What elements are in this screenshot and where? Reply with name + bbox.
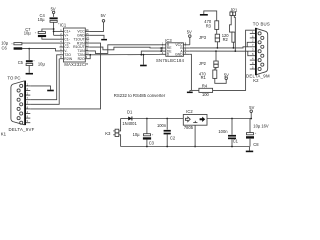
K1 pin numbers bbox=[27, 82, 29, 123]
capacitor C8 bbox=[246, 119, 269, 148]
jumper JP3 bbox=[199, 29, 220, 48]
svg-text:IC2: IC2 bbox=[186, 109, 193, 114]
wire to pin V+ bbox=[54, 34, 60, 36]
svg-text:100n: 100n bbox=[218, 129, 228, 134]
svg-text:10µ: 10µ bbox=[133, 132, 141, 137]
svg-text:TO PC: TO PC bbox=[7, 75, 20, 80]
svg-text:K2: K2 bbox=[253, 78, 259, 83]
svg-text:10µ: 10µ bbox=[38, 61, 46, 66]
svg-text:D1: D1 bbox=[127, 110, 133, 115]
capacitor C2 bbox=[157, 119, 176, 147]
wire IC2 output line bbox=[207, 118, 251, 120]
IC3 pin numbers bbox=[162, 41, 187, 55]
svg-text:5V: 5V bbox=[101, 13, 106, 18]
jumper JP2 bbox=[199, 50, 218, 67]
ground G1 bbox=[26, 73, 33, 75]
K2 pin stubs bbox=[250, 33, 255, 69]
svg-text:5V: 5V bbox=[224, 72, 229, 77]
wire to pin C1+ bbox=[54, 30, 60, 32]
svg-text:IC1: IC1 bbox=[60, 23, 67, 28]
wire A second pin jog bbox=[248, 51, 250, 56]
wire net R1OUT to IC3 RE bbox=[89, 47, 159, 50]
svg-text:10µ: 10µ bbox=[38, 17, 46, 22]
capacitor C7 bbox=[24, 27, 46, 37]
svg-text:R4: R4 bbox=[202, 83, 208, 88]
wire riser to IC3 DE bbox=[141, 51, 159, 55]
wire C7 top to C4 net bbox=[42, 29, 54, 32]
capacitor C4 bbox=[38, 13, 60, 25]
5V supply S3 (IC3 VCC) bbox=[187, 29, 192, 44]
svg-text:C5: C5 bbox=[18, 60, 24, 65]
wire K1 to IC1 T2O bbox=[30, 55, 59, 100]
IC1 MAX232CP bbox=[60, 23, 89, 67]
svg-text:TO BUS: TO BUS bbox=[253, 22, 270, 27]
IC1 pin stubs left bbox=[60, 31, 64, 58]
5V supply S2 (IC1 VCC) bbox=[89, 13, 106, 31]
svg-text:DELTA_9VF: DELTA_9VF bbox=[9, 127, 35, 132]
wire C6 bottom to pin V- with jog bbox=[22, 49, 60, 51]
svg-text:C8: C8 bbox=[253, 142, 259, 147]
wire tie R2O to T2IN bbox=[89, 55, 90, 59]
svg-text:RS232 to RS485 converter: RS232 to RS485 converter bbox=[114, 93, 166, 98]
wire net R1IN to K1 bbox=[30, 43, 100, 109]
wire K3 top to input line bbox=[119, 119, 121, 131]
capacitor C5 bbox=[18, 59, 46, 66]
wire K3 bottom to rail bbox=[119, 135, 121, 147]
K1 DB9 connector DELTA_9VF bbox=[1, 75, 35, 136]
svg-text:10µ 16V: 10µ 16V bbox=[253, 124, 269, 129]
svg-text:MAX232CP: MAX232CP bbox=[64, 62, 88, 67]
svg-text:10µ: 10µ bbox=[24, 30, 32, 35]
capacitor C3 bbox=[133, 119, 155, 147]
wire D1 to IC2 input bbox=[132, 118, 183, 120]
ground G7 (rail end) bbox=[246, 147, 253, 153]
ground G3 (IC1 GND) bbox=[89, 35, 107, 40]
ground G5 and resistor R3 470 bbox=[200, 11, 219, 30]
svg-text:K1: K1 bbox=[1, 131, 7, 136]
svg-text:JP2: JP2 bbox=[199, 61, 207, 66]
wire B line bbox=[190, 47, 250, 48]
IC1 pin labels bbox=[64, 30, 72, 61]
IC1 pin numbers bbox=[60, 28, 89, 59]
5V supply S4 (pull-up) bbox=[215, 72, 229, 83]
svg-text:1N4001: 1N4001 bbox=[122, 121, 137, 126]
svg-text:100: 100 bbox=[202, 92, 210, 97]
5V supply S1 (above C4) bbox=[51, 7, 56, 17]
wire IC3 GND down bbox=[190, 54, 192, 90]
svg-text:100n: 100n bbox=[157, 123, 167, 128]
connector K3 bbox=[105, 129, 119, 136]
svg-text:R2O: R2O bbox=[78, 57, 85, 61]
5V supply S5 (output) bbox=[249, 105, 254, 118]
svg-text:C6: C6 bbox=[2, 46, 8, 51]
svg-text:5V: 5V bbox=[187, 29, 192, 34]
wire C4 bottom to IC1 V+ column bbox=[53, 22, 55, 35]
ground G4 (on D net) bbox=[140, 54, 147, 66]
IC2 7805 regulator bbox=[183, 109, 207, 130]
svg-text:SN75LBC184: SN75LBC184 bbox=[156, 58, 185, 63]
K2 pin numbers bbox=[252, 30, 254, 70]
wire JP1 left to R2 bbox=[230, 16, 234, 33]
wire C6 top to pin C2+ bbox=[22, 42, 60, 44]
svg-text:K3: K3 bbox=[105, 131, 111, 136]
resistor R2 120 bbox=[222, 32, 235, 49]
wire C5 top riser bbox=[28, 49, 30, 61]
svg-text:R3: R3 bbox=[206, 24, 212, 29]
K1 pin stubs bbox=[26, 86, 30, 123]
wire tie RE-DE bbox=[160, 47, 162, 52]
K2 DB9 connector DELTA_9M bbox=[246, 22, 270, 83]
wire ground rail bbox=[121, 146, 250, 148]
svg-text:C3: C3 bbox=[149, 140, 155, 145]
wire R4 to K2 pin 1 bbox=[213, 30, 255, 90]
svg-text:C1: C1 bbox=[233, 139, 239, 144]
svg-text:R2IN: R2IN bbox=[64, 57, 72, 61]
IC3 pin labels bbox=[167, 43, 172, 57]
wire B second pin jog bbox=[247, 42, 250, 47]
diode D1 1N4001 bbox=[121, 110, 138, 127]
IC1 pin stubs right bbox=[85, 31, 89, 58]
jumper JP1 bbox=[230, 7, 238, 15]
IC3 pin stubs bbox=[160, 45, 190, 55]
wire net T1IN to IC3 R bbox=[89, 45, 159, 54]
resistor R1 470 pull-up bbox=[199, 67, 217, 80]
wire C7 bottom to pin C1- bbox=[42, 37, 60, 39]
svg-text:5V: 5V bbox=[249, 105, 254, 110]
capacitor C6 bbox=[1, 40, 22, 50]
capacitor C1 bbox=[218, 119, 238, 147]
ground G2 (K1) bbox=[30, 86, 54, 91]
wire IC2 GND down bbox=[194, 125, 196, 146]
K2 pin circles bbox=[258, 32, 264, 71]
svg-text:JP3: JP3 bbox=[199, 35, 207, 40]
svg-text:JP1: JP1 bbox=[230, 7, 238, 12]
wire net T2IN to IC3 D bbox=[89, 54, 159, 56]
svg-text:7805: 7805 bbox=[184, 125, 194, 130]
svg-text:R2: R2 bbox=[223, 37, 229, 42]
wire K1 to IC1 R2IN bbox=[30, 59, 59, 105]
wire C5 bottom bbox=[28, 66, 30, 73]
svg-text:GND: GND bbox=[175, 53, 183, 57]
svg-text:C2: C2 bbox=[170, 135, 176, 140]
K1 pin circles bbox=[17, 84, 23, 124]
wire A line bbox=[190, 50, 250, 52]
IC3 SN75LBC184 bbox=[156, 38, 185, 63]
wire JP1 right to A line bbox=[234, 16, 235, 52]
ground G6 and resistor R4 100 bbox=[187, 83, 213, 96]
svg-text:R1: R1 bbox=[201, 75, 207, 80]
